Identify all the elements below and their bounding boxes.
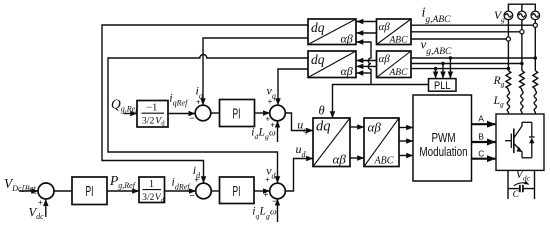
block -1/(3/2Vd) box [137, 101, 168, 128]
wire PWM output B [472, 141, 496, 143]
svg-text:Vdc: Vdc [29, 205, 45, 221]
current sensor node phase B [520, 30, 524, 34]
wire v_g,ABC measurement line A [411, 57, 535, 59]
sum junction S3 (id) [196, 183, 212, 199]
inductor L_g phase C [534, 91, 536, 112]
svg-text:Lg: Lg [493, 95, 504, 109]
wire Q_gRef input arrow [124, 113, 138, 115]
main dq/ab transform box [313, 118, 350, 167]
svg-text:idRef: idRef [172, 175, 192, 192]
main ab/ABC transform box [364, 118, 399, 167]
svg-text:ig,ABC: ig,ABC [422, 5, 452, 25]
junction dot v-tap phase B [520, 62, 523, 65]
capacitor C plates [520, 185, 523, 192]
svg-text:−: − [189, 191, 194, 201]
svg-text:αβ: αβ [341, 64, 353, 78]
svg-text:ABC: ABC [389, 35, 409, 45]
resistor R_g phase B [520, 71, 525, 90]
current sensor node phase A [506, 37, 510, 41]
svg-text:iqLgω: iqLgω [252, 206, 277, 221]
transform block row2 ab/ABC diagonal [377, 51, 412, 78]
svg-text:ABC: ABC [389, 68, 409, 78]
wire beta row1 [357, 32, 377, 34]
resistor R_g phase A [506, 71, 511, 90]
PI controller top (current q) box [220, 100, 255, 127]
svg-text:−1: −1 [146, 102, 157, 113]
IGBT body bar [513, 129, 515, 154]
wire v_g,ABC measurement line C [411, 68, 508, 70]
svg-text:PI: PI [233, 182, 241, 199]
svg-text:Pg,Ref: Pg,Ref [109, 173, 137, 190]
wire PI1 to sum S4 [255, 112, 270, 114]
PI controller left (dc voltage) box [72, 177, 107, 205]
block 1/(3/2Vd) box [139, 177, 165, 203]
svg-text:+: + [38, 198, 43, 207]
wire i_g,ABC measurement line A [411, 24, 533, 26]
svg-text:+: + [263, 190, 268, 199]
wire sum S2 to PI1 [211, 112, 220, 114]
svg-text:PI: PI [86, 183, 94, 200]
junction dot PLL tap 3 [434, 67, 437, 70]
svg-text:θ: θ [319, 103, 325, 117]
wire beta row2 [357, 65, 377, 67]
wire v_g,ABC measurement line B [411, 63, 522, 65]
wire ab/ABC to PWM 1 [399, 127, 413, 129]
wire theta branch into row2 dq block [357, 72, 372, 74]
wire i_dRef to sum S3 [165, 190, 196, 192]
svg-text:αβ: αβ [341, 32, 353, 46]
svg-text:A: A [478, 114, 484, 124]
transform block row1 dq/ab box [308, 19, 356, 45]
transform block row2 diagonal [308, 51, 356, 78]
svg-text:PWM: PWM [431, 132, 455, 145]
wire main dq to ab upper [350, 126, 364, 128]
wire phase C vertical [534, 20, 536, 114]
wire V_dc up into sum S1 [45, 199, 47, 217]
wire PWM output A [472, 123, 496, 125]
transform block row1 ab/ABC box [377, 19, 412, 45]
svg-text:dq: dq [311, 52, 325, 67]
svg-text:3/2Vd: 3/2Vd [142, 193, 164, 204]
IGBT emitter [514, 144, 522, 158]
svg-text:ud: ud [296, 142, 307, 159]
PI controller bottom (current d) box [220, 177, 255, 204]
svg-text:Qg,Ref: Qg,Ref [111, 97, 139, 114]
svg-text:αβ: αβ [379, 21, 391, 33]
wire PWM output C [472, 158, 496, 160]
wire ab/ABC to PWM 3 [399, 155, 413, 157]
transform block row1 ab/ABC diagonal [377, 19, 412, 45]
PWM Modulation box [413, 95, 472, 181]
svg-text:C: C [478, 149, 484, 159]
wire sum S1 to PI-left [54, 190, 72, 192]
svg-text:−: − [32, 188, 37, 198]
wire i_q*Lg*w feedforward into sum S5 [277, 199, 279, 222]
wire phase A vertical [507, 20, 509, 114]
sum junction S1 (Vdc) [38, 183, 54, 199]
wire alpha row1 [357, 21, 377, 23]
fraction bar Q block [142, 112, 165, 114]
svg-text:PI: PI [233, 105, 241, 122]
fraction bar P block [143, 189, 162, 191]
junction dot PLL tap 2 [441, 62, 444, 65]
wire i_g,ABC measurement line C [411, 38, 506, 40]
AC source B [518, 11, 527, 20]
diode cathode bar [529, 136, 535, 138]
junction dot v-tap phase C [534, 56, 537, 59]
wire ab/ABC to PWM 2 [399, 140, 413, 142]
svg-text:αβ: αβ [368, 120, 382, 135]
transform block row2 ab/ABC box [377, 51, 412, 78]
transform block row1 diagonal [308, 19, 356, 45]
junction dot PLL tap 1 [449, 56, 452, 59]
wire i_d feedback (from dq/ab row1 to bottom sum S3) [102, 25, 308, 183]
wire V_DcBat input arrow to sum S1 [19, 190, 38, 192]
IGBT gate lead [505, 140, 511, 142]
sum junction S5 (ud) [270, 183, 286, 199]
svg-text:C: C [513, 190, 520, 200]
junction dot v-tap phase A [507, 67, 510, 70]
PLL box [429, 79, 457, 92]
wire PLL tap 2 [442, 64, 444, 79]
svg-text:−: − [272, 196, 277, 206]
wire theta from PLL to main dq block [333, 85, 429, 119]
wire PLL tap 3 [435, 69, 437, 79]
wire PLL tap 1 [449, 58, 451, 78]
wire three-phase top bus [508, 4, 535, 11]
wire PI2 to sum S5 [254, 190, 270, 192]
inductor L_g phase B [521, 91, 523, 112]
svg-text:B: B [478, 132, 484, 142]
wire main dq to ab lower [350, 157, 364, 159]
svg-text:uq: uq [297, 117, 307, 134]
svg-text:αβ: αβ [379, 53, 391, 65]
inductor L_g phase A [507, 91, 509, 112]
AC source C [531, 11, 540, 20]
svg-text:αβ: αβ [333, 152, 347, 167]
wire theta riser to row1 dq block with hops [357, 42, 372, 85]
wire i_g,ABC measurement line B [411, 31, 520, 33]
main ab/ABC diagonal [364, 118, 399, 167]
svg-text:Vg: Vg [494, 10, 505, 24]
sum junction S2 (iq) [195, 105, 211, 121]
inverter box [496, 114, 544, 170]
svg-text:+: + [265, 175, 270, 184]
svg-text:dq: dq [311, 20, 325, 35]
svg-text:dq: dq [316, 119, 331, 135]
svg-text:PLL: PLL [434, 80, 451, 92]
svg-text:3/2Vd: 3/2Vd [142, 115, 165, 127]
svg-text:iqRef: iqRef [169, 91, 189, 108]
IGBT top rail [522, 121, 532, 123]
svg-text:ABC: ABC [374, 155, 394, 166]
svg-text:−: − [189, 113, 194, 123]
wire v_d feedback with hop over i_q line [108, 55, 308, 184]
diode triangle [529, 137, 534, 143]
diode leads [531, 122, 533, 158]
IGBT bottom rail [522, 157, 532, 159]
svg-text:1: 1 [149, 179, 154, 190]
svg-text:+: + [270, 120, 275, 129]
wire DC link right rail [534, 170, 536, 199]
wire i_q feedback (from dq/ab row1 to sum S2) [203, 38, 308, 105]
transform block row2 dq/ab box [308, 51, 356, 78]
resistor R_g phase C [533, 71, 538, 90]
svg-text:+: + [268, 97, 273, 106]
sum junction S4 (uq) [270, 105, 286, 121]
wire sum S3 to PI2 [211, 190, 219, 192]
wire alpha row2 [357, 60, 377, 62]
current sensor node phase C [533, 23, 537, 27]
capacitor C wire [508, 188, 535, 190]
svg-text:Rg: Rg [493, 75, 505, 89]
V_dc measurement arc [514, 183, 529, 186]
wire u_d from sum S5 to main dq block [285, 159, 313, 192]
wire i_qRef to sum S2 [168, 113, 195, 115]
wire u_q from sum S4 to main dq block [285, 113, 313, 131]
IGBT collector [514, 122, 522, 138]
wire DC link left rail [507, 170, 509, 199]
AC source A [504, 11, 513, 20]
main dq/ab diagonal [313, 118, 350, 167]
wire P_gRef from PI-left to 1/(3/2Vd) block [107, 190, 139, 192]
svg-text:Modulation: Modulation [419, 146, 467, 159]
IGBT gate bar [510, 134, 512, 149]
wire phase B vertical [521, 20, 523, 114]
wire i_d*Lg*w feedforward into sum S4 [277, 121, 279, 142]
IGBT emitter arrowhead [517, 147, 523, 152]
svg-text:+: + [196, 97, 201, 106]
wire v_q feedback [278, 69, 308, 105]
svg-text:+: + [194, 175, 199, 184]
